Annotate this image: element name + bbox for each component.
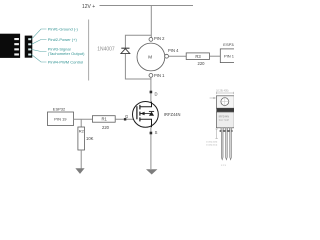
svg-text:10.29(.405): 10.29(.405) — [216, 90, 228, 93]
wire divider line — [88, 20, 90, 81]
node gate terminal dot — [124, 118, 126, 120]
svg-text:R1: R1 — [102, 117, 108, 122]
leader arrow left of tab — [210, 97, 215, 99]
svg-text:S: S — [155, 130, 158, 135]
wire 12V top rail — [100, 5, 194, 7]
dim line top — [216, 92, 233, 94]
ground (R2) — [75, 168, 84, 174]
node drain junction dot — [150, 91, 153, 94]
wire leader pin4 — [32, 55, 47, 63]
node junction R2 tap — [80, 119, 82, 127]
seating plane bar — [220, 130, 233, 132]
svg-text:1 2 3: 1 2 3 — [221, 165, 227, 167]
legs — [221, 128, 232, 160]
wire R1 to gate — [115, 118, 137, 120]
pin PIN 4 terminal — [165, 54, 169, 58]
wire PIN19 to R1 — [74, 118, 93, 120]
svg-text:1N4007: 1N4007 — [97, 47, 115, 53]
svg-text:220: 220 — [198, 61, 206, 66]
svg-text:D: D — [155, 92, 158, 97]
node source junction dot — [150, 132, 153, 135]
resistor R2 — [78, 127, 85, 150]
node Pin#3 label — [48, 47, 85, 57]
svg-text:IRFZ44N: IRFZ44N — [219, 114, 230, 118]
svg-text:220: 220 — [102, 125, 110, 130]
svg-text:PIN 1: PIN 1 — [224, 53, 234, 58]
wire diode branch bottom — [125, 54, 151, 80]
svg-text:ESP32: ESP32 — [53, 106, 66, 111]
dim annotations legs — [215, 129, 217, 139]
transistor Q1 MOSFET IRFZ44N — [133, 102, 159, 128]
gate bar — [136, 106, 138, 119]
svg-text:Pin#2-Power (+): Pin#2-Power (+) — [48, 37, 78, 42]
wire leader pin3 — [32, 49, 47, 51]
svg-text:ESP32: ESP32 — [223, 42, 234, 47]
body diode — [149, 112, 154, 116]
svg-text:S10 714P: S10 714P — [219, 119, 230, 122]
svg-text:IRFZ44N: IRFZ44N — [164, 112, 181, 117]
drain lead — [140, 102, 152, 107]
connector J1 body — [0, 34, 20, 58]
svg-text:12V +: 12V + — [82, 4, 95, 10]
svg-text:13.06(.514): 13.06(.514) — [206, 144, 217, 146]
package TO-220 drawing — [206, 90, 234, 167]
wire 12V rail to motor PIN2 — [150, 6, 152, 38]
svg-text:10K: 10K — [86, 136, 94, 141]
body arrow — [141, 113, 152, 115]
wire diode branch top — [125, 35, 151, 48]
pin PIN 2 terminal — [149, 38, 153, 42]
pin PIN 1 terminal — [149, 74, 153, 78]
part ESP32 PWM pin box PIN 19 — [48, 112, 74, 126]
source lead — [140, 119, 152, 127]
wire PIN4 to R3 — [169, 55, 187, 57]
tab with hole — [216, 96, 234, 108]
resistor R1 — [92, 116, 115, 123]
svg-text:PIN 2: PIN 2 — [154, 36, 165, 41]
svg-text:Pin#4-PWM Control: Pin#4-PWM Control — [48, 60, 83, 65]
dark band — [216, 108, 234, 112]
wire MOSFET source down — [150, 127, 152, 169]
svg-text:PIN 4: PIN 4 — [168, 48, 179, 53]
wire leader pin2 — [32, 40, 47, 45]
channel segments — [139, 105, 141, 110]
svg-text:M: M — [148, 55, 152, 60]
svg-text:PIN 19: PIN 19 — [54, 117, 67, 122]
svg-text:13.36(.528): 13.36(.528) — [206, 142, 217, 144]
body — [216, 112, 234, 128]
wire R3 to ESP pin — [209, 55, 220, 57]
diode D1 — [121, 48, 130, 53]
part ESP32 tach pin box — [220, 49, 241, 63]
svg-text:R3: R3 — [195, 54, 201, 59]
wire R2 to ground — [80, 150, 82, 169]
svg-text:PIN 1: PIN 1 — [154, 73, 165, 78]
motor M1 — [137, 43, 165, 71]
svg-text:R2: R2 — [79, 128, 85, 133]
wire motor PIN1 to MOSFET drain — [150, 77, 152, 103]
wire leader pin1 — [32, 29, 47, 39]
ground (source) — [146, 169, 157, 174]
connector header pins — [25, 36, 33, 58]
svg-text:(Tachometer Output): (Tachometer Output) — [48, 51, 85, 56]
svg-text:G: G — [125, 114, 128, 119]
resistor R3 — [186, 53, 209, 60]
svg-text:Pin#1-Ground (-): Pin#1-Ground (-) — [48, 27, 79, 32]
